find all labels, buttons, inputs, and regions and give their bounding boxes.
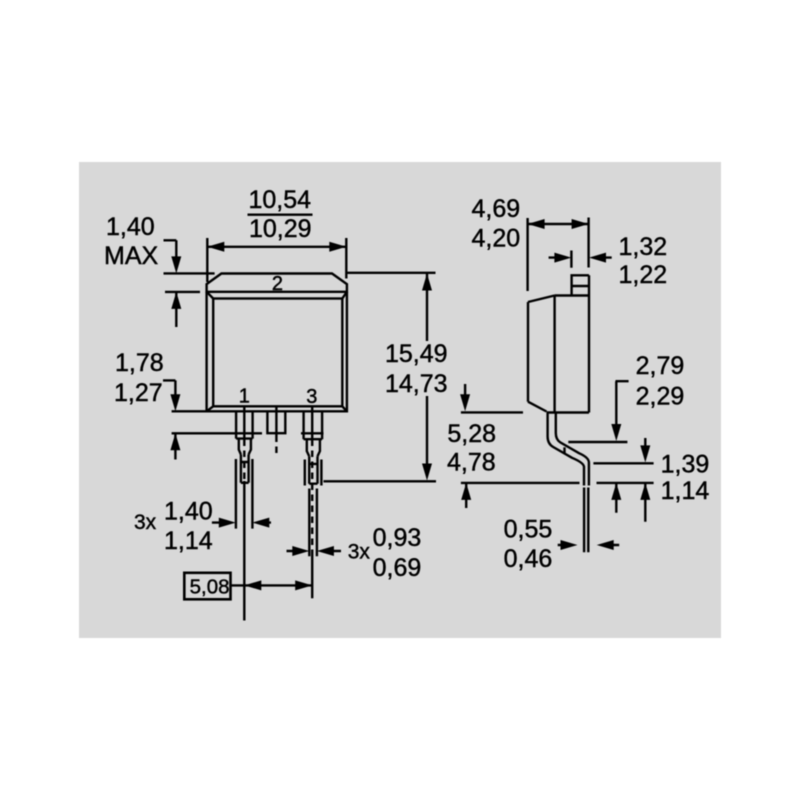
front view: tab outline with chamfered corners: [207, 274, 347, 293]
dim 5,28/4,78: lower arrow tail: [465, 483, 467, 508]
dim width: extension lines: [207, 238, 346, 282]
svg-text:0,69: 0,69: [373, 554, 422, 582]
dim 3x 1,40/1,14: arrow tails: [212, 521, 271, 523]
arrowhead 1,39 up x645: [640, 483, 650, 500]
lead 1: side sleeves: [236, 459, 253, 529]
svg-text:2,29: 2,29: [636, 383, 685, 411]
svg-text:1,14: 1,14: [164, 527, 213, 555]
svg-text:14,73: 14,73: [385, 370, 448, 398]
dim 1,39/1,14: lower arrow tails: [616, 483, 645, 522]
lead 3: narrow box: [309, 456, 317, 483]
lead 3: wide section: [304, 411, 323, 439]
arrowhead 5,08 right: [295, 580, 312, 590]
dim 1,32/1,22: tick and arrow tails: [549, 251, 612, 268]
dim 2,79/2,29: elbow and tail: [616, 381, 629, 425]
right view lead: gauge tick: [563, 447, 565, 454]
arrowhead 15,49 up: [422, 274, 432, 291]
svg-text:3x: 3x: [348, 541, 371, 564]
svg-text:3: 3: [306, 386, 317, 408]
arrowhead 1,40/1,14 left: [252, 518, 269, 528]
arrowhead 5,28 down: [460, 394, 470, 411]
svg-text:5,08: 5,08: [190, 576, 230, 599]
svg-text:1,78: 1,78: [115, 349, 164, 377]
dim 5,28/4,78: extension lines: [461, 412, 580, 483]
svg-text:1,32: 1,32: [619, 233, 668, 261]
lead 3: medium section and taper: [307, 439, 320, 456]
svg-text:0,46: 0,46: [504, 545, 553, 573]
arrowhead 15,49 down: [422, 464, 432, 481]
lead 3: tip twin lines: [309, 489, 317, 557]
svg-text:10,54: 10,54: [249, 186, 312, 214]
arrowhead 1,32 right: [554, 253, 571, 263]
svg-text:0,55: 0,55: [504, 515, 553, 543]
arrowhead 5,08 left: [244, 580, 261, 590]
svg-text:15,49: 15,49: [385, 340, 448, 368]
dim extension line at lead step level: [172, 432, 324, 434]
svg-text:1,27: 1,27: [114, 379, 163, 407]
center lead: centerline: [275, 407, 277, 436]
dim 1,40 MAX: top extension of tab: [164, 272, 215, 274]
svg-text:5,28: 5,28: [447, 420, 496, 448]
lead 3: centerline: [311, 407, 313, 440]
svg-text:1,14: 1,14: [661, 477, 710, 505]
lead 3: side sleeves: [305, 460, 322, 486]
arrowhead width dim right: [329, 242, 346, 252]
dim 1,39/1,14: upper arrow tail: [644, 438, 646, 447]
right view: body outline: [528, 275, 589, 412]
arrowhead 1,78/1,27 up: [170, 433, 180, 450]
center lead: cut short rectangle: [267, 411, 285, 433]
right view: inner vertical line: [553, 296, 555, 413]
front view: corner bevels: [207, 292, 347, 412]
dim 5,08: box: [184, 573, 230, 600]
arrowhead 1,32 left: [589, 253, 606, 263]
svg-text:2: 2: [272, 273, 283, 295]
dim 2,79/2,29: extension line: [568, 441, 627, 443]
arrowhead 2,79 down: [611, 424, 621, 441]
svg-text:4,69: 4,69: [472, 195, 521, 223]
front view: body outer rectangle: [207, 292, 347, 412]
lead 1: wide section: [236, 411, 253, 438]
svg-text:3x: 3x: [134, 511, 157, 534]
dim width: fraction bar: [248, 213, 313, 215]
dim 1,78/1,27: extension at body bottom: [172, 410, 207, 412]
arrowhead 0,55 right: [561, 540, 578, 550]
arrowhead 1,78/1,27 down: [170, 394, 180, 411]
arrowhead 4,69 left: [528, 219, 545, 229]
svg-text:1,39: 1,39: [661, 451, 710, 479]
arrowhead 4,69 right: [572, 219, 589, 229]
right view lead: left edge S-curve: [548, 413, 584, 486]
arrowhead 1,39 down: [640, 445, 650, 462]
svg-text:10,29: 10,29: [249, 215, 312, 243]
arrowhead width dim left: [207, 242, 224, 252]
svg-text:1,40: 1,40: [106, 213, 155, 241]
arrowhead 1,40MAX down: [171, 256, 181, 273]
dim 1,40 MAX: bottom extension: [165, 291, 200, 293]
arrowhead 0,93/0,69 right: [292, 546, 309, 556]
dim 1,78/1,27: elbow and arrow tails: [163, 380, 175, 459]
lead 1: narrow box: [241, 455, 249, 483]
right view lead: tip below seating plane: [584, 488, 588, 553]
arrowhead 1,40/1,14 right: [219, 518, 236, 528]
front view: tab bottom line: [206, 291, 348, 293]
lead 1: centerline: [243, 407, 245, 440]
dim width: dimension line: [207, 246, 346, 248]
lead 1: medium section and taper: [239, 439, 251, 455]
svg-text:MAX: MAX: [104, 242, 159, 270]
svg-text:2,79: 2,79: [636, 352, 685, 380]
arrowhead 1,40MAX up: [171, 292, 181, 309]
arrowhead 1,39 up x616: [611, 483, 621, 500]
dim 1,40 MAX: elbow and arrow tails: [164, 240, 177, 327]
right view lead: right edge S-curve: [556, 413, 589, 486]
svg-text:1,22: 1,22: [619, 261, 668, 289]
arrowhead 0,93/0,69 left: [317, 546, 334, 556]
svg-text:1,40: 1,40: [164, 498, 213, 526]
dim 4,69/4,20: dimension line: [528, 223, 589, 225]
dim 3x 0,93/0,69: arrow tails: [287, 550, 342, 552]
gray drawing plate: [79, 162, 721, 638]
dim 4,69/4,20: extension lines: [528, 218, 589, 292]
svg-text:1: 1: [239, 386, 250, 408]
dim 5,28/4,78: upper arrow tail: [464, 384, 466, 396]
dim 0,55/0,46: arrow tails: [558, 544, 620, 546]
arrowhead 0,55 left: [597, 540, 614, 550]
dim 15,49/14,73: dimension line: [426, 274, 428, 465]
dim 5,08: line and dimension line: [230, 584, 312, 586]
svg-text:4,20: 4,20: [472, 225, 521, 253]
dim 1,39/1,14: extension lines: [593, 463, 653, 483]
arrowhead 5,28 up: [461, 483, 471, 500]
right view: tab tip: [572, 275, 589, 295]
svg-text:4,78: 4,78: [447, 449, 496, 477]
dim 15,49/14,73: extensions: [324, 273, 437, 482]
svg-text:0,93: 0,93: [373, 524, 422, 552]
front view: body inner rectangle: [213, 299, 342, 407]
